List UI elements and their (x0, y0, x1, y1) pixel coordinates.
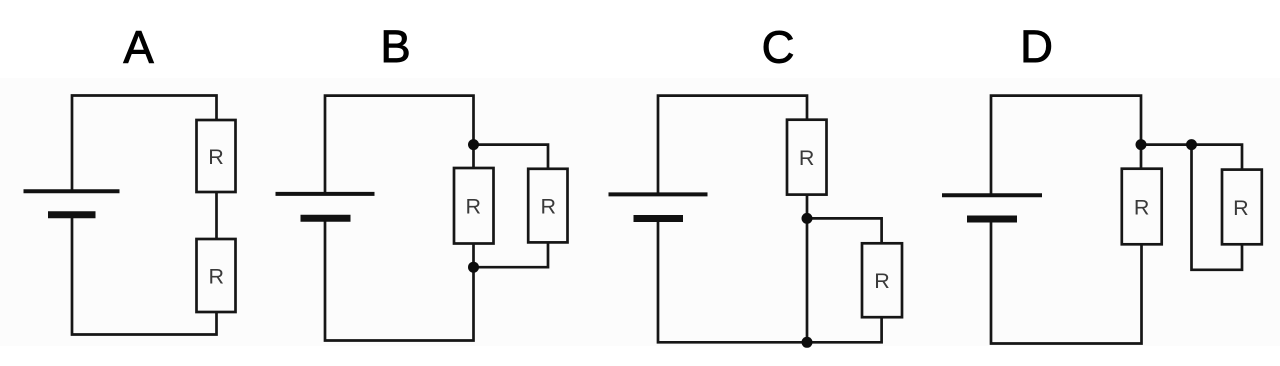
svg-text:R: R (541, 195, 557, 219)
svg-text:D: D (1020, 21, 1053, 72)
svg-text:R: R (1134, 195, 1150, 219)
svg-text:R: R (874, 269, 890, 293)
svg-text:A: A (123, 22, 154, 73)
svg-text:C: C (762, 22, 795, 73)
svg-text:B: B (380, 21, 410, 72)
svg-text:R: R (1233, 196, 1249, 220)
svg-text:R: R (208, 145, 224, 169)
svg-text:R: R (209, 264, 225, 288)
svg-text:R: R (466, 195, 482, 219)
svg-text:R: R (799, 146, 815, 170)
